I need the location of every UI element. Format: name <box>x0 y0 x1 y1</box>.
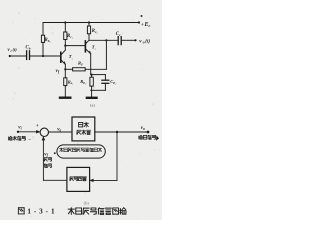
svg-text:+: + <box>141 22 144 28</box>
svg-text:CE₂: CE₂ <box>110 79 116 85</box>
svg-text:RF: RF <box>78 61 84 67</box>
svg-text:T₁: T₁ <box>69 54 73 60</box>
svg-text:(b): (b) <box>84 200 90 205</box>
svg-text:(a): (a) <box>90 103 95 108</box>
svg-text:+: + <box>36 123 39 129</box>
svg-text:Rc₁: Rc₁ <box>67 34 73 39</box>
svg-text:Rc₂: Rc₂ <box>92 29 99 34</box>
svg-text:i: i <box>11 49 12 53</box>
svg-text:1-3-1: 1-3-1 <box>27 208 57 216</box>
svg-text:T₂: T₂ <box>92 44 96 50</box>
svg-text:Rb₁: Rb₁ <box>45 38 51 43</box>
svg-text:Re₁: Re₁ <box>68 79 73 85</box>
svg-text:(t): (t) <box>145 39 150 44</box>
svg-text:Cc: Cc <box>116 32 121 37</box>
svg-text:(t): (t) <box>13 47 18 52</box>
svg-text:RE₂: RE₂ <box>80 79 86 85</box>
svg-text:Ec: Ec <box>144 22 151 28</box>
svg-text:Cb: Cb <box>26 46 31 51</box>
svg-text:−: − <box>28 138 31 143</box>
